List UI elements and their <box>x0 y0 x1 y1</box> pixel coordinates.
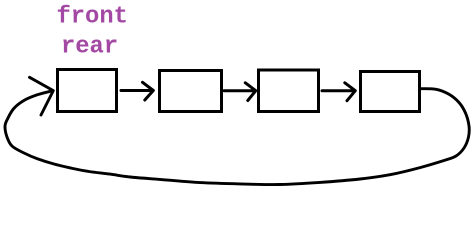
node box 2 <box>160 71 222 112</box>
loop wire from box4 around bottom back to box1 <box>5 89 469 185</box>
node box 3 <box>259 70 319 112</box>
node box 1 <box>58 70 117 112</box>
arrow box1 to box2 <box>121 82 153 100</box>
node box 4 <box>361 72 420 112</box>
svg-text:front: front <box>57 4 128 31</box>
loop arrowhead into box1 <box>30 77 54 115</box>
arrow box2 to box3 <box>224 83 256 101</box>
svg-text:rear: rear <box>61 34 118 61</box>
arrow box3 to box4 <box>322 83 355 101</box>
